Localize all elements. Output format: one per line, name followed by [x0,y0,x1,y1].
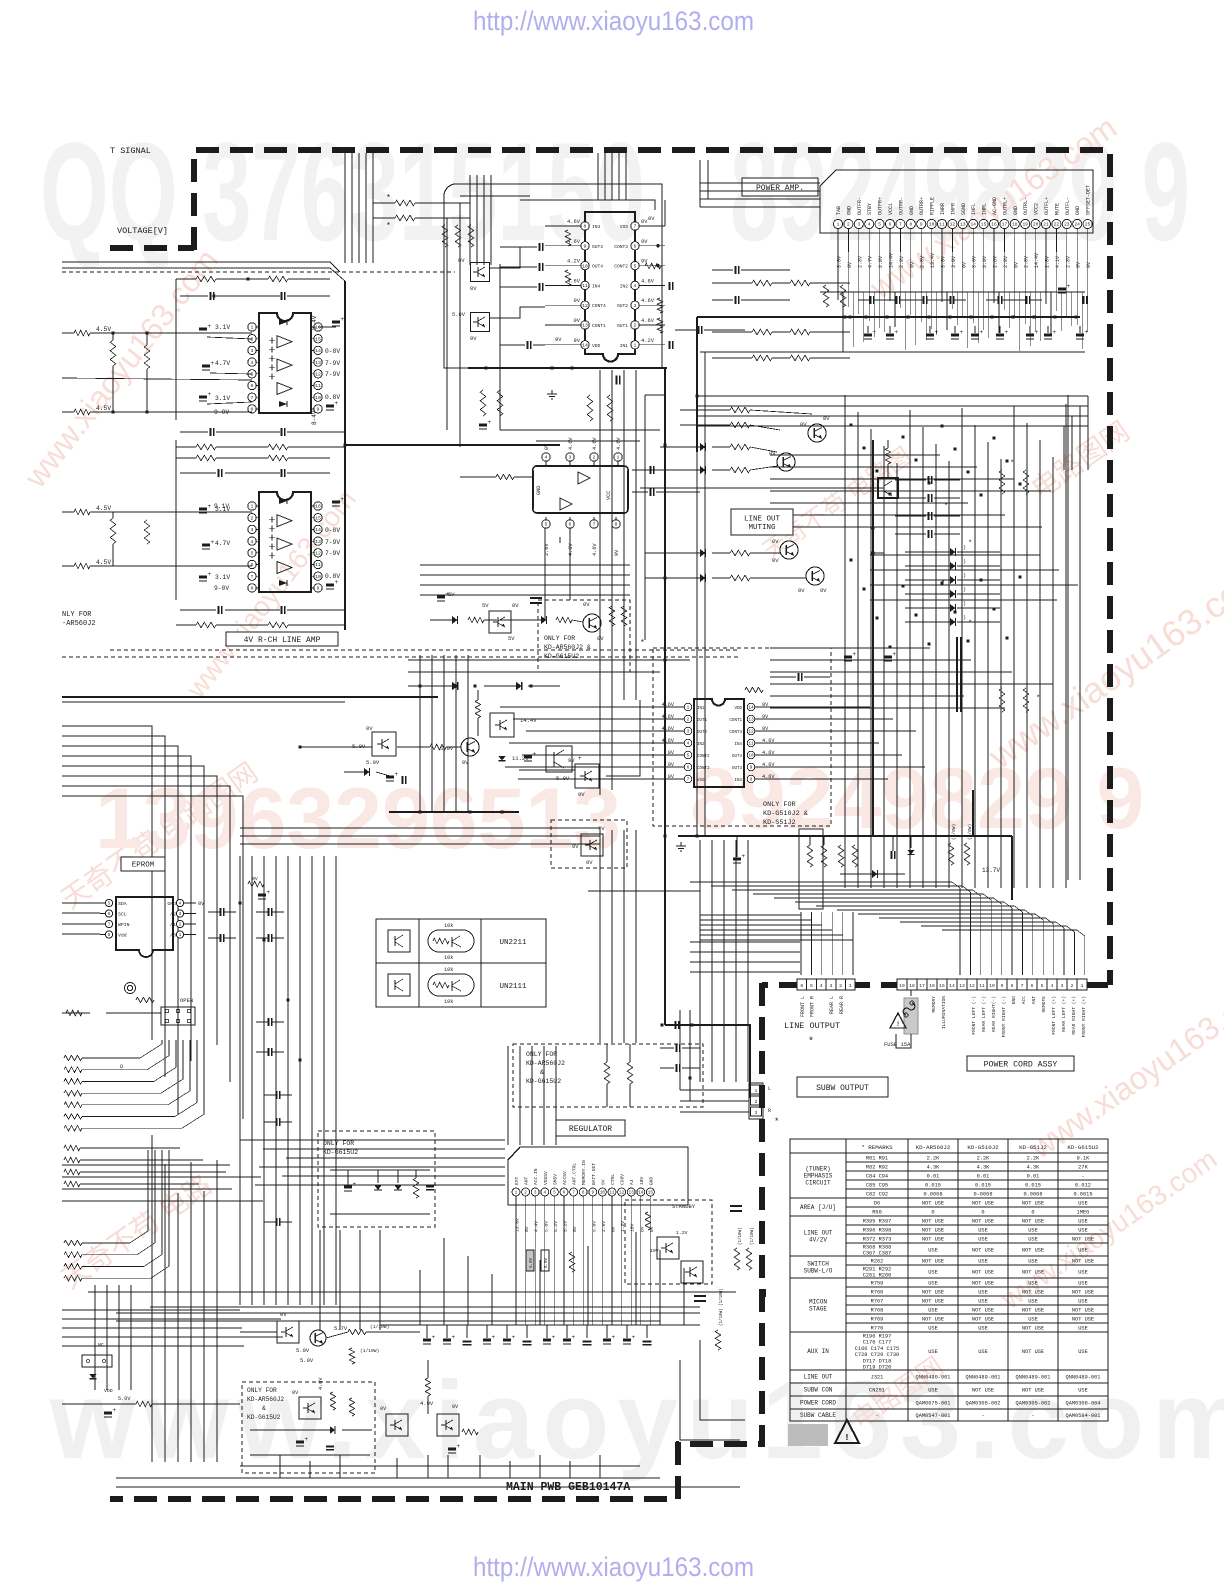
wire horizontal [700,182,820,184]
wire pin drop [1066,229,1068,252]
IC U3 (14-pin switch IC) [585,212,635,362]
pin 10 U6 OUT4 [747,751,755,759]
pin 19 OUTRL- [1021,219,1030,228]
wire vertical [339,1230,341,1330]
hatched cap U2 row1 [199,508,207,511]
capacitor C [219,934,221,942]
svg-text:NOT USE: NOT USE [972,1308,994,1314]
wire vertical [539,1260,541,1325]
wire cap stub [546,1325,548,1338]
wire vertical [735,840,737,1080]
svg-text:NOT USE: NOT USE [1072,1237,1094,1243]
wire vertical [599,370,601,700]
svg-text:C82 C92: C82 C92 [866,1192,888,1198]
electrolytic right [1058,288,1066,291]
wire horizontal [700,929,832,931]
svg-text:D717 D718: D717 D718 [863,1358,892,1364]
svg-text:4.3K: 4.3K [1027,1165,1041,1171]
wire bend [732,890,981,975]
svg-text:4: 4 [251,539,254,545]
diode D [950,548,955,556]
svg-text:5.0V: 5.0V [556,775,570,782]
svg-text:14.4V: 14.4V [520,717,537,724]
junction dots scatter center [418,684,421,687]
svg-text:14: 14 [970,222,976,228]
wire vertical [837,252,839,300]
connector CN power cord pins [897,979,907,990]
svg-text:KD-G510J2 &: KD-G510J2 & [763,810,808,818]
svg-text:7: 7 [899,222,902,228]
svg-text:4: 4 [251,360,254,366]
svg-text:SUBW-L/O: SUBW-L/O [804,1268,833,1275]
resistor R ladder2 [64,1240,82,1246]
pin 18 GND [1010,219,1019,228]
transistor Q muting 4 [806,567,824,585]
electrolytic cap C+ [926,334,934,337]
wire vertical [177,1193,179,1462]
svg-text:FRONT LEFT (-): FRONT LEFT (-) [971,996,977,1035]
svg-text:+: + [853,651,857,658]
wire horizontal [770,466,977,468]
svg-text:0V: 0V [380,1406,387,1412]
svg-text:VDD: VDD [592,343,601,349]
svg-text:NOT USE: NOT USE [1022,1349,1044,1355]
resistor R vertical left of U3 b [565,270,571,286]
pin 6 EPROM SCL [105,910,112,917]
heavy vertical bus x665 [664,368,666,1025]
svg-text:8: 8 [1011,983,1014,989]
wire vertical [800,912,802,975]
wire cap stub [526,1325,528,1338]
svg-text:1: 1 [837,222,840,228]
table column lines [845,1139,847,1421]
wire vertical [203,1191,205,1462]
wire horizontal [62,1318,281,1320]
capacitor C row3 left of U3 [538,243,540,251]
transistor Q (box) lower [471,313,490,332]
diode+transistor row left of box [452,616,457,624]
svg-text:0.0015: 0.0015 [1073,1192,1092,1198]
svg-text:OUT3: OUT3 [592,244,603,250]
svg-text:0V: 0V [452,1404,459,1410]
electrolytic cap C+ [643,1340,652,1342]
wire vertical [359,1230,361,1330]
svg-text:5.0V: 5.0V [296,1347,310,1354]
svg-text:4.0V: 4.0V [318,1377,324,1390]
svg-text:MUTING: MUTING [748,524,776,532]
wire vertical [1045,252,1047,304]
electrolytic cap C+ [463,1340,472,1342]
svg-text:4.2V: 4.2V [641,338,655,344]
svg-text:SUBW CON: SUBW CON [804,1387,833,1394]
svg-text:ACC.IN: ACC.IN [533,1168,539,1185]
gray legend box [788,1424,828,1446]
svg-text:4.3K: 4.3K [977,1165,991,1171]
svg-text:OUT4: OUT4 [592,264,603,270]
svg-text:5V: 5V [508,635,515,642]
pin 3 REG ACC.IN [531,1188,539,1196]
electrolytic cap C (pin16) [332,321,340,324]
capacitor C pair left 3 [697,326,699,334]
capacitor C on VDD line [526,341,528,349]
wire horizontal [870,599,1057,601]
svg-text:ONLY FOR: ONLY FOR [323,1140,354,1147]
svg-text:4.5V: 4.5V [96,559,111,566]
wire input row [62,332,74,334]
svg-text:0V: 0V [1076,262,1082,268]
wire bend [62,756,191,1061]
svg-text:4.7V: 4.7V [215,540,230,547]
wire bend [795,902,1012,975]
svg-text:9V: 9V [600,1179,606,1185]
svg-text:4: 4 [179,902,182,907]
diode D [950,576,955,584]
svg-text:KD-G615U2: KD-G615U2 [544,653,579,660]
svg-text:4.7V: 4.7V [868,256,874,268]
resistor R [64,1145,80,1151]
svg-text:4: 4 [868,222,871,228]
svg-text:USE: USE [1078,1388,1088,1394]
resistor R vertical left of U3 (4.6V) [565,230,571,246]
wire bend [62,746,178,1114]
svg-text:2: 2 [524,1191,527,1196]
svg-text:NOT USE: NOT USE [1022,1290,1044,1296]
wire horizontal [240,827,600,829]
pin 6 U6 CONT3 [684,763,692,771]
svg-text:-AR560J2: -AR560J2 [62,620,96,628]
wire vertical [419,1270,421,1325]
diode D mute row1 [700,443,705,451]
resistor R (top row right) [268,276,288,282]
resistor network rounded [428,974,474,996]
svg-text:0: 0 [931,1210,934,1216]
svg-text:REAR L: REAR L [829,996,835,1014]
transistor Q muting 1 [808,424,826,442]
svg-text:ONLY FOR: ONLY FOR [763,801,796,809]
svg-text:5.2V: 5.2V [563,1221,569,1232]
svg-text:QAM0547-001: QAM0547-001 [916,1413,951,1419]
svg-text:R372 R373: R372 R373 [863,1237,892,1243]
transistor Q center (0V) [583,614,601,632]
hatched cap row2 [202,365,210,368]
svg-text:4.5V: 4.5V [96,326,111,333]
svg-text:FRONT R: FRONT R [810,996,816,1017]
svg-text:*: * [640,639,645,648]
svg-text:21: 21 [1043,222,1049,228]
svg-text:13.4V: 13.4V [930,253,936,268]
svg-text:CONT4: CONT4 [729,731,742,735]
svg-text:9V: 9V [614,549,620,556]
svg-text:+: + [457,1443,461,1450]
wire vertical [419,655,421,812]
IC U6 (14-pin, KD-G510J2 only) [694,699,744,787]
svg-text:0.015: 0.015 [975,1183,991,1189]
capacitor C pair left 2 [734,296,736,304]
svg-text:(1/10W): (1/10W) [738,1227,743,1245]
svg-text:SWITCH: SWITCH [807,1261,829,1268]
wire vertical [443,655,445,812]
wire row3 [645,552,700,554]
svg-text:USE: USE [928,1248,938,1254]
svg-text:1: 1 [515,1191,518,1196]
resistor R feed [556,617,572,623]
svg-text:4: 4 [543,1191,546,1196]
resistor R vertical [442,225,448,247]
wire vertical [1079,406,1081,470]
capacitor below U3 right [615,376,617,385]
wire vertical [810,912,812,975]
svg-text:*: * [386,222,391,231]
svg-text:5: 5 [634,263,637,269]
capacitor C in box [426,1185,434,1187]
svg-text:1: 1 [617,455,620,461]
svg-text:STBY: STBY [867,203,873,215]
svg-text:5.7V: 5.7V [334,1325,348,1332]
resistor R vertical 2 [144,345,150,369]
pin 13 U6 CONT1 [747,715,755,723]
svg-text:+: + [552,1334,556,1341]
diode D mute row2 [700,466,705,474]
resistor R vertical standby [645,1212,651,1230]
wire fan [82,1040,176,1081]
hatched cap below [448,1448,456,1451]
svg-text:5V: 5V [482,602,489,609]
svg-text:USE: USE [928,1281,938,1287]
svg-text:10: 10 [989,983,995,989]
svg-text:GND: GND [536,486,542,495]
diode D vertical in box [374,1185,382,1190]
wire pin drop [601,1196,603,1325]
svg-text:4.6V: 4.6V [592,437,598,450]
diode D [950,618,955,626]
svg-text:VSS: VSS [620,224,629,230]
svg-text:+: + [960,329,964,336]
svg-text:13: 13 [315,360,321,366]
wire feed verticals [699,160,701,207]
junction dots diagonal pattern upper [849,423,852,426]
svg-text:+: + [452,1334,456,1341]
pin 14 REG 10V [637,1188,645,1196]
wire vertical [509,1461,511,1478]
svg-text:2: 2 [847,222,850,228]
wire horizontal [770,454,940,456]
electrolytic cap C+ [864,334,872,337]
wire horizontal [690,961,800,963]
svg-text:4V/2V: 4V/2V [809,1237,827,1244]
wire cap stub [646,1325,648,1338]
pin 5 U6 CONT2 [684,751,692,759]
svg-text:5.0V: 5.0V [366,759,380,766]
svg-text:9: 9 [750,766,753,771]
svg-text:OUT1: OUT1 [697,719,708,723]
svg-text:13.7V: 13.7V [982,867,1000,874]
wire vertical [974,425,976,888]
hatched cap bottom-left [104,1412,112,1415]
long verticals x697-712 midright [696,352,698,836]
svg-text:): ) [963,573,966,579]
svg-text:ONLY FOR: ONLY FOR [544,635,575,642]
wire vertical [372,153,374,263]
wire pin drop [899,229,901,252]
svg-text:9.1K: 9.1K [1077,1156,1091,1162]
capacitor C far right (offset det) [1082,296,1084,304]
svg-text:4.6V: 4.6V [568,437,574,450]
capacitor C [869,296,871,304]
wire bottom caps U2 [217,606,219,614]
capacitor C [927,512,929,520]
wire bend [921,926,1074,975]
svg-text:USE: USE [928,1326,938,1332]
wire pin drop [837,229,839,252]
wire horizontal [870,569,1059,571]
wire [80,1159,203,1161]
wire vertical [1040,292,1042,341]
capacitor on heavy bus [674,1021,676,1029]
svg-text:25: 25 [1085,222,1091,228]
svg-text:VDD: VDD [104,1388,113,1394]
connector CN regulator body [508,1147,688,1205]
svg-text:8: 8 [584,224,587,230]
wire vertical [490,175,492,265]
svg-text:9-0V: 9-0V [214,585,229,592]
svg-text:ILLUMINATION: ILLUMINATION [941,996,947,1029]
svg-text:2: 2 [687,718,690,723]
svg-text:R262: R262 [871,1259,884,1265]
wire vertical [896,463,898,888]
svg-text:TAB: TAB [836,206,842,215]
pin 9 OUTRR+ [917,219,926,228]
wire horizontal [526,730,648,732]
svg-text:9V: 9V [598,825,605,832]
svg-text:INRR: INRR [940,203,946,215]
svg-text:2: 2 [593,455,596,461]
svg-text:0V: 0V [574,318,581,324]
resistor R (top row left) [196,276,216,282]
resistor R vertical in box [413,1178,419,1198]
UN2211/UN2111 block frame [376,919,546,1007]
wire horizontal [790,730,916,732]
svg-text:VCC: VCC [606,491,612,500]
svg-text:NOT USE: NOT USE [972,1388,994,1394]
svg-text:8: 8 [615,522,618,528]
pin 14 U3 VDD [581,341,589,349]
svg-text:4.7V: 4.7V [215,360,230,367]
svg-text:STANDBY: STANDBY [672,1203,696,1210]
hatched cap 5V [437,596,445,599]
transistor Q (box) in cell [388,974,410,996]
svg-text:0V: 0V [800,421,807,428]
svg-text:9V: 9V [641,259,648,265]
wire cap stub [566,1325,568,1338]
op-amp U2 (quad line amp, lower) [215,492,340,592]
wire horizontal [255,1184,505,1186]
wire vertical [479,1455,481,1478]
svg-text:7: 7 [572,1191,575,1196]
cap double-bar far right [694,1295,706,1297]
wire vertical [735,1010,737,1082]
wire EPROM left feeds [62,902,100,904]
resistor R to Q [430,744,446,750]
wire pin drop [534,1196,536,1325]
pin 2 EPROM A1 [176,920,183,927]
svg-text:IN4: IN4 [734,743,742,747]
svg-text:8: 8 [582,1191,585,1196]
svg-text:USE: USE [1078,1270,1088,1276]
svg-text:+: + [895,329,899,336]
wire horizontal [770,647,930,649]
wire horizontal [790,706,870,708]
svg-text:4.6V: 4.6V [568,543,574,556]
resistor R vertical (bias) [110,340,116,366]
electrolytic cap C+ [563,1339,571,1342]
svg-text:NOT USE: NOT USE [972,1219,994,1225]
wire vertical [507,1046,509,1145]
wire pin drop [1024,229,1026,252]
svg-text:2.8V: 2.8V [899,256,905,268]
svg-text:R396 R398: R396 R398 [863,1228,892,1234]
svg-text:(TUNER): (TUNER) [805,1166,830,1173]
svg-text:9V: 9V [641,239,648,245]
svg-text:ANT.CTRL: ANT.CTRL [572,1163,578,1185]
svg-text:R81 R91: R81 R91 [866,1156,888,1162]
wire bend [62,726,152,1040]
svg-text:0V: 0V [1086,262,1092,268]
heavy vertical x1012 corner [1011,836,1013,900]
pin 1 TAB [833,219,842,228]
pin 20 VCC2 [1031,219,1040,228]
resistor pair (1/8W) [948,843,954,865]
svg-text:*: * [968,540,972,548]
svg-text:QNN0489-001: QNN0489-001 [966,1375,1001,1381]
svg-text:3.1V: 3.1V [215,395,230,402]
wire pin drop [1055,229,1057,252]
svg-text:NOT USE: NOT USE [922,1290,944,1296]
wire pin drop [972,229,974,252]
diode D bottom-left [89,1374,96,1379]
pin 24 GND [1073,219,1082,228]
svg-text:POWER CORD: POWER CORD [800,1400,836,1407]
wire pin drop [611,1196,613,1325]
svg-text:C367 C387: C367 C387 [863,1251,892,1257]
wire cap stub [466,1325,468,1338]
wire vertical [1029,292,1031,346]
svg-text:): ) [963,587,966,593]
wire horizontal [790,742,879,744]
svg-text:FRONT RIGHT (+): FRONT RIGHT (+) [1081,996,1087,1037]
wire vertical [941,252,943,302]
wire horizontal [770,490,1051,492]
resistor pair (1/10W) right [734,1248,740,1270]
svg-text:6: 6 [800,983,803,989]
heavy bus vertical x697 [696,317,698,452]
wire vertical [263,856,265,1305]
svg-text:6: 6 [569,522,572,528]
resistor R ladder2 [64,1264,82,1270]
svg-text:T SIGNAL: T SIGNAL [110,146,151,156]
electrolytic cap C+ [1076,334,1084,337]
resistor R vertical 2 bottom box [349,1398,355,1416]
svg-text:3: 3 [755,1110,758,1116]
svg-text:IN2: IN2 [620,283,629,289]
resistor R input [74,330,90,336]
diode D vertical 2 [394,1185,402,1190]
svg-text:REMOTE: REMOTE [1041,996,1047,1013]
wire vertical [130,1285,132,1390]
svg-text:9: 9 [317,586,320,592]
svg-text:10V: 10V [630,1223,636,1232]
resistor R [64,1181,80,1187]
pin 7 U6 VSS [684,775,692,783]
